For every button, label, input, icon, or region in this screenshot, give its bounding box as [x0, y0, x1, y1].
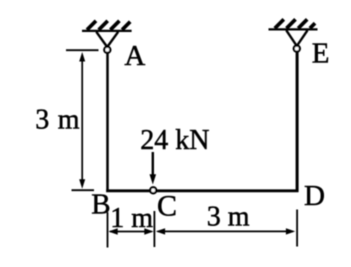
member AB (vertical): [106, 50, 109, 192]
member BD (bottom beam): [106, 189, 298, 192]
pin circle E: [294, 46, 300, 52]
extension line below D: [296, 210, 298, 247]
svg-text:D: D: [304, 180, 325, 212]
dimension line 1 m with arrows: [110, 231, 152, 233]
svg-text:A: A: [124, 40, 145, 72]
svg-text:24 kN: 24 kN: [140, 125, 209, 156]
dimension line 3 m (bottom) with arrows: [158, 230, 294, 232]
pin support triangle E: [286, 30, 307, 46]
ceiling line at support E: [269, 28, 318, 30]
pin circle C on beam: [150, 187, 156, 193]
svg-text:1 m: 1 m: [110, 203, 153, 234]
pin circle A: [104, 47, 110, 53]
ceiling line at support A: [82, 30, 132, 32]
pin support triangle A: [96, 32, 118, 47]
dimension 3 m (left, vertical) : top extension line: [66, 49, 99, 51]
ceiling hatching at support E: [275, 19, 315, 28]
force 24 kN arrow: [152, 152, 154, 176]
member ED (vertical): [296, 49, 299, 192]
svg-text:3 m: 3 m: [35, 104, 79, 135]
ceiling hatching at support A: [87, 21, 130, 30]
extension line below C: [153, 211, 155, 247]
vertical dimension line with arrows: [81, 59, 83, 181]
bottom extension line near B: [72, 189, 95, 191]
svg-text:C: C: [157, 189, 177, 222]
svg-text:3 m: 3 m: [207, 201, 250, 232]
svg-text:E: E: [312, 38, 330, 70]
extension line below B: [107, 212, 109, 247]
